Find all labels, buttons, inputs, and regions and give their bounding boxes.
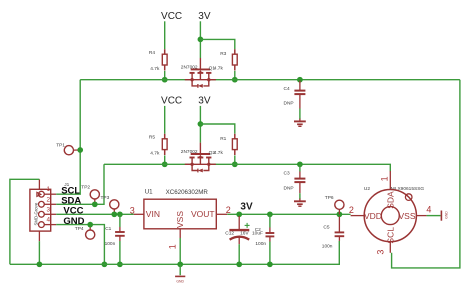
svg-text:VCC: VCC (161, 96, 182, 107)
lead C3 top (299, 172, 301, 179)
svg-text:1: 1 (379, 176, 389, 181)
pin line U2 SDA (1) (389, 171, 391, 190)
plus sign of C12 (245, 223, 250, 228)
IC U1 body (144, 199, 216, 229)
pin line U1 VSS (179, 229, 181, 238)
capacitor C1 (115, 232, 125, 236)
svg-text:Q1: Q1 (209, 65, 216, 71)
connector J1 body (30, 189, 51, 231)
lead C4 top (299, 81, 301, 91)
wire bus to C3 (green part) (299, 164, 301, 171)
capacitor C2 (266, 233, 275, 236)
stub gnd below U1 (179, 264, 181, 275)
svg-text:TP2: TP2 (81, 185, 90, 191)
wire GND from J1 to gnd bus (56, 225, 104, 265)
pin line U2 VDD (2) (351, 215, 365, 217)
resistor R1 (232, 134, 237, 155)
svg-text:GND: GND (176, 280, 184, 284)
junction node 3V gate Q2 (198, 121, 204, 127)
pin line J1-3 (44, 213, 56, 215)
wire R1 to SDA3V bus (234, 155, 236, 164)
svg-text:VSS: VSS (175, 211, 185, 228)
ground below U1 (175, 276, 185, 283)
wire SCL3V right vertical (392, 80, 460, 268)
pin line U1 VIN (134, 213, 144, 215)
svg-text:VCC: VCC (161, 11, 182, 22)
wire SDA from J1 to riser (56, 164, 104, 204)
junction U1 VSS/gnd bus (177, 261, 183, 267)
wire VCC to C1 (119, 214, 121, 227)
capacitor C12 plus plate (229, 229, 249, 231)
svg-text:3V: 3V (198, 11, 211, 22)
svg-text:1: 1 (167, 244, 177, 249)
svg-text:C4: C4 (284, 86, 290, 92)
IC U2 lens bump (405, 194, 412, 201)
lead C2 top (269, 228, 271, 234)
svg-text:4.7k: 4.7k (214, 66, 224, 72)
svg-text:1: 1 (47, 186, 51, 193)
svg-text:100n: 100n (255, 241, 266, 247)
pin line U1 VOUT (216, 213, 227, 215)
lead C5 bottom (338, 236, 340, 241)
ground below C4 (294, 119, 306, 127)
svg-text:SCL: SCL (386, 227, 396, 244)
svg-text:2: 2 (349, 205, 354, 215)
junction C2/3V (267, 211, 273, 217)
wire SCL from J1 to riser (56, 80, 80, 195)
svg-text:SMD-Grove: SMD-Grove (33, 202, 38, 225)
svg-text:GND: GND (445, 211, 449, 219)
pin line J1-4 (44, 224, 56, 226)
pin line U2 VSS (4) (416, 215, 426, 217)
svg-text:VIN: VIN (146, 209, 160, 219)
testpoint TP6 (335, 200, 344, 209)
resistor R5 (162, 134, 167, 155)
svg-text:4.7k: 4.7k (150, 66, 160, 72)
testpoint TP3 (110, 200, 119, 209)
svg-text:TP4: TP4 (75, 226, 84, 232)
testpoint TP1 (64, 146, 73, 155)
wire VCC supply to R4 (164, 21, 166, 49)
lead C5 top (338, 217, 340, 233)
wire SDA3V bus to U2 pin1 (209, 164, 390, 171)
pin1 marker arrow of J1 (37, 192, 41, 196)
junction C3/SDA3V bus (297, 161, 303, 167)
svg-text:TP6: TP6 (325, 195, 334, 201)
lead C4 bottom (299, 94, 301, 108)
junction R1/SDA3V bus (232, 161, 238, 167)
wire C4 to ground (299, 109, 301, 120)
junction J1 mount/gnd bus (37, 261, 43, 267)
svg-text:3: 3 (376, 250, 386, 255)
pin circle J1-3 (39, 211, 45, 217)
wire VCC supply to R5 (164, 106, 166, 134)
svg-text:3V: 3V (198, 96, 211, 107)
wire J1 mount bottom to gnd bus (38, 241, 40, 264)
wire C2 to gnd bus (269, 242, 271, 265)
svg-text:16V: 16V (240, 231, 249, 237)
pin circle J1-2 (39, 201, 45, 207)
svg-text:C5: C5 (323, 225, 329, 231)
lead C1 bottom (119, 236, 121, 241)
wire R3 to SCL3V bus (234, 71, 236, 80)
svg-text:4: 4 (426, 205, 431, 215)
pin line J1-2 (44, 203, 56, 205)
wire 3V supply down to gate Q1 (199, 21, 201, 58)
svg-text:2N7002: 2N7002 (181, 149, 198, 155)
svg-text:DNP: DNP (284, 100, 294, 106)
mount stub J1 bottom (38, 231, 40, 241)
testpoint TP2 (90, 190, 99, 199)
transistor Q2 2N7002 (185, 143, 216, 173)
junction TP1/SCL riser (77, 147, 83, 153)
junction TP4/GND (87, 222, 93, 228)
ground at U2 VSS (rotated) (441, 211, 448, 221)
capacitor C3 (294, 179, 305, 183)
pin circle J1-4 (39, 222, 45, 228)
ground below C3 (294, 199, 306, 207)
svg-text:2N7002: 2N7002 (181, 65, 198, 71)
svg-text:3V: 3V (240, 202, 253, 213)
svg-text:SDA: SDA (386, 191, 396, 209)
svg-text:4.7k: 4.7k (214, 150, 224, 156)
wire 3V to R3 (200, 39, 234, 49)
wire C12 to gnd bus (238, 244, 240, 264)
svg-text:C1: C1 (105, 226, 111, 232)
resistor R4 (162, 49, 167, 70)
svg-text:U1: U1 (145, 188, 153, 195)
svg-text:R3: R3 (220, 51, 226, 57)
lead C12 bottom (238, 238, 240, 245)
svg-text:R5: R5 (149, 135, 155, 141)
wire U1 VOUT 3V rail (227, 213, 350, 215)
svg-text:GND: GND (63, 216, 84, 227)
junction TP2/SDA (92, 201, 98, 207)
pin TP6 (338, 209, 340, 214)
junction C2/gnd bus (267, 261, 273, 267)
junction C12/3V (236, 211, 242, 217)
capacitor C5 (335, 232, 345, 236)
svg-text:100n: 100n (322, 244, 333, 250)
wire 3V supply down to gate Q2 (199, 106, 201, 143)
svg-text:4.7k: 4.7k (150, 151, 160, 157)
junction C1/VCC (117, 211, 123, 217)
wire C3 to ground (299, 193, 301, 199)
wire U1 VSS to gnd bus (179, 238, 181, 264)
svg-text:DNP: DNP (284, 186, 294, 192)
svg-text:TP1: TP1 (56, 142, 65, 148)
junction TP3/VCC (111, 211, 117, 217)
svg-text:C3: C3 (284, 170, 290, 176)
wire VCC from J1 to U1 (56, 213, 134, 215)
pin line J1-1 (44, 193, 56, 195)
IC U2 inner circle (381, 207, 399, 225)
junction GND wire/gnd bus (102, 261, 108, 267)
svg-text:R1: R1 (220, 136, 226, 142)
pin TP3 (113, 209, 115, 214)
svg-text:U2: U2 (364, 186, 370, 192)
junction C1/gnd bus (117, 261, 123, 267)
svg-text:3: 3 (130, 205, 135, 215)
svg-text:4: 4 (47, 217, 51, 224)
svg-text:100n: 100n (105, 241, 116, 247)
svg-text:Q2: Q2 (209, 150, 216, 156)
mount stub J1 top (38, 179, 40, 189)
pin TP1 (74, 149, 81, 151)
pin line U2 SCL (3) (389, 242, 391, 253)
junction C12/gnd bus (236, 261, 242, 267)
resistor R3 (232, 49, 237, 70)
wire C1 to gnd bus (119, 241, 121, 264)
junction TP6/3V (337, 211, 343, 217)
svg-text:R4: R4 (149, 50, 155, 56)
wire R4 to SCL bus (164, 71, 166, 80)
lead C1 top (119, 227, 121, 232)
svg-text:C12: C12 (225, 231, 234, 237)
svg-text:XC6206302MR: XC6206302MR (166, 189, 209, 196)
svg-text:2: 2 (47, 196, 51, 203)
svg-text:MLX90615SSG: MLX90615SSG (391, 186, 425, 192)
transistor Q1 2N7002 (185, 58, 216, 88)
junction C4/SCL3V bus (297, 77, 303, 83)
svg-text:3: 3 (47, 206, 51, 213)
capacitor C12 curved plate (230, 237, 250, 240)
lead C2 bottom (269, 236, 271, 241)
wire J1 mount top to left rail (10, 179, 40, 264)
testpoint TP4 (86, 230, 95, 239)
wire 3V to R1 (200, 124, 234, 134)
wire SCL bus (VCC side) (80, 79, 192, 81)
wire U2 VSS to ground (427, 215, 441, 217)
gnd bus horizontal (10, 241, 339, 264)
pin TP4 (89, 225, 91, 230)
pin TP2 (94, 199, 96, 204)
wire SDA bus (VCC side) (104, 163, 192, 165)
capacitor C4 (294, 91, 305, 95)
wire R5 to SDA bus (164, 155, 166, 164)
junction node 3V gate Q1 (198, 37, 204, 43)
IC U2 outer circle (364, 190, 416, 242)
svg-text:C2: C2 (255, 227, 261, 233)
wire 3V to C2 (269, 214, 271, 227)
svg-text:VSS: VSS (399, 211, 416, 221)
junction R3/SCL3V bus (232, 77, 238, 83)
junction R5/SDA bus (162, 161, 168, 167)
svg-text:VDD: VDD (364, 211, 382, 221)
svg-text:TP3: TP3 (101, 195, 110, 201)
lead C3 bottom (299, 182, 301, 193)
pin circle J1-1 (39, 191, 45, 197)
junction R4/SCL bus (162, 77, 168, 83)
svg-text:VOUT: VOUT (191, 209, 215, 219)
wire SCL3V bus (209, 79, 460, 81)
lead C12 top (238, 216, 240, 230)
